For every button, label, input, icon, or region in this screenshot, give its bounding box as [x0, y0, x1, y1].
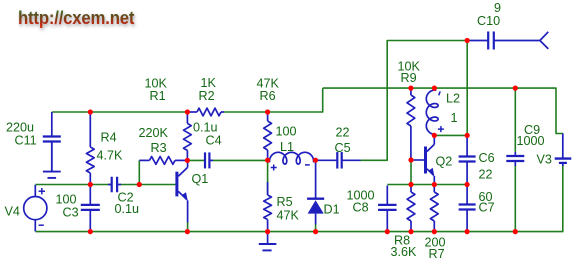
label C9 — [524, 123, 540, 137]
label L1 value — [276, 125, 297, 139]
svg-text:220K: 220K — [139, 126, 169, 140]
wire — [514, 166, 516, 232]
node junction 2 — [185, 109, 190, 114]
node junction 5 — [137, 182, 142, 187]
label L2 value — [451, 111, 458, 125]
label R1 — [150, 89, 166, 103]
L1 plus mark — [271, 165, 277, 171]
capacitor C2 — [108, 177, 121, 193]
node junction 24 — [408, 229, 413, 234]
label V4 — [5, 205, 20, 219]
ground — [43, 142, 61, 178]
label L1 — [280, 140, 294, 154]
L2 plus mark — [438, 126, 444, 132]
ground — [259, 232, 277, 250]
node junction 17 — [432, 182, 437, 187]
svg-text:0.1u: 0.1u — [193, 121, 218, 135]
svg-text:R9: R9 — [401, 71, 417, 85]
node junction 15 — [465, 133, 470, 138]
svg-text:22: 22 — [479, 168, 493, 182]
svg-text:V4: V4 — [5, 205, 20, 219]
label V3 — [537, 153, 552, 167]
svg-text:R4: R4 — [101, 131, 117, 145]
capacitor C9 — [506, 152, 524, 166]
capacitor C6 — [459, 137, 476, 183]
label C3 value — [56, 193, 77, 207]
label R3 — [151, 141, 167, 155]
svg-text:1000: 1000 — [517, 134, 545, 148]
label R6 — [260, 89, 276, 103]
wire — [387, 184, 467, 186]
capacitor C4 — [205, 152, 213, 168]
wire — [514, 88, 516, 152]
transistor Q2 — [426, 136, 435, 185]
node junction 12 — [465, 38, 470, 43]
svg-text:R5: R5 — [277, 195, 293, 209]
resistor R6 — [264, 113, 272, 160]
label C7 value — [479, 190, 493, 204]
svg-text:C5: C5 — [335, 141, 351, 155]
inductor L1 — [268, 152, 316, 164]
resistor R3 — [139, 157, 187, 165]
node junction 27 — [513, 229, 518, 234]
node junction 25 — [432, 229, 437, 234]
label C11 value — [6, 121, 34, 135]
label C4 — [206, 134, 222, 148]
node junction 20 — [185, 229, 190, 234]
capacitor C8 — [378, 186, 397, 231]
node junction 18 — [465, 182, 470, 187]
label R8 value — [391, 245, 418, 259]
svg-text:C10: C10 — [477, 14, 500, 28]
source V4 — [24, 185, 47, 232]
label C4 value — [193, 121, 218, 135]
wire — [35, 165, 563, 232]
node junction 26 — [465, 229, 470, 234]
wire — [119, 184, 176, 186]
node junction 21 — [265, 229, 270, 234]
logo http://cxem.net — [18, 8, 134, 29]
svg-text:1: 1 — [451, 111, 458, 125]
svg-text:R7: R7 — [429, 247, 445, 261]
label R8 — [394, 234, 410, 248]
label R9 — [401, 71, 417, 85]
label C10 value — [494, 1, 501, 15]
resistor R9 — [407, 89, 415, 160]
svg-text:R1: R1 — [150, 89, 166, 103]
svg-text:0.1u: 0.1u — [115, 202, 140, 216]
wire — [224, 88, 323, 112]
svg-text:C4: C4 — [206, 134, 222, 148]
capacitor C11 — [43, 112, 61, 171]
label R9 value — [398, 60, 421, 74]
svg-text:C7: C7 — [479, 201, 495, 215]
svg-text:9: 9 — [494, 1, 501, 15]
wire — [52, 111, 188, 113]
node junction 19 — [88, 229, 93, 234]
battery V3 — [555, 134, 572, 167]
resistor R8 — [407, 185, 415, 231]
svg-text:C8: C8 — [353, 201, 369, 215]
node junction 6 — [185, 158, 190, 163]
svg-text:1K: 1K — [201, 76, 217, 90]
capacitor C5 — [316, 152, 361, 169]
wire — [323, 88, 564, 133]
label C6 — [479, 151, 495, 165]
resistor R2 — [187, 108, 224, 116]
resistor R4 — [86, 113, 94, 185]
svg-text:Q1: Q1 — [192, 172, 209, 186]
label C6 value — [479, 168, 493, 182]
svg-text:C3: C3 — [63, 206, 79, 220]
node junction 14 — [432, 133, 437, 138]
label C7 — [479, 201, 495, 215]
L2 tick mark — [439, 91, 441, 95]
label C5 value — [336, 126, 350, 140]
label Q1 — [192, 172, 209, 186]
label Q2 — [436, 155, 453, 169]
label R7 — [429, 247, 445, 261]
label C2 — [118, 191, 134, 205]
label C9 value — [517, 134, 545, 148]
label C11 — [15, 134, 37, 148]
node junction 1 — [88, 109, 93, 114]
antenna — [510, 32, 548, 49]
node junction 11 — [513, 86, 518, 91]
wire — [434, 134, 467, 136]
svg-text:C6: C6 — [479, 151, 495, 165]
node junction 4 — [88, 182, 93, 187]
resistor R7 — [430, 185, 438, 231]
label R2 value — [201, 76, 217, 90]
capacitor C10 — [467, 32, 510, 50]
node junction 23 — [385, 229, 390, 234]
label R4 — [101, 131, 117, 145]
label R7 value — [425, 236, 446, 250]
svg-text:R2: R2 — [199, 89, 215, 103]
label C8 value — [347, 189, 375, 203]
node junction 13 — [408, 157, 413, 162]
node junction 8 — [313, 158, 318, 163]
label C3 — [63, 206, 79, 220]
label C10 — [477, 14, 500, 28]
wire — [267, 160, 269, 195]
L1 minus mark — [305, 164, 310, 166]
svg-text:C11: C11 — [15, 134, 37, 148]
svg-text:V3: V3 — [537, 153, 552, 167]
wire — [315, 159, 317, 162]
label R6 value — [257, 77, 280, 91]
resistor R5 — [264, 182, 272, 231]
wire — [212, 159, 267, 161]
svg-text:L2: L2 — [446, 92, 460, 106]
svg-text:100: 100 — [56, 193, 77, 207]
label R3 value — [139, 126, 169, 140]
transistor Q1 — [177, 161, 188, 231]
node junction 7 — [265, 158, 270, 163]
wire — [138, 160, 140, 184]
wire — [360, 41, 467, 161]
label R5 value — [277, 209, 300, 223]
capacitor C3 — [81, 186, 100, 231]
wire — [187, 159, 205, 161]
wire — [411, 159, 426, 161]
svg-text:47K: 47K — [277, 209, 300, 223]
svg-text:R3: R3 — [151, 141, 167, 155]
svg-text:220u: 220u — [6, 121, 34, 135]
label L2 — [446, 92, 460, 106]
svg-text:R6: R6 — [260, 89, 276, 103]
inductor L2 — [426, 88, 438, 136]
node junction 22 — [313, 229, 318, 234]
label R4 value — [97, 149, 124, 163]
capacitor C7 — [459, 186, 476, 231]
resistor R1 — [184, 113, 192, 160]
svg-text:Q2: Q2 — [436, 155, 453, 169]
label R2 — [199, 89, 215, 103]
label D1 — [324, 203, 340, 217]
node junction 16 — [408, 182, 413, 187]
label R1 value — [145, 77, 168, 91]
label C2 value — [115, 202, 140, 216]
svg-text:22: 22 — [336, 126, 350, 140]
wire — [35, 184, 112, 186]
svg-text:3.6K: 3.6K — [391, 245, 418, 259]
node junction 9 — [408, 86, 413, 91]
svg-text:100: 100 — [276, 125, 297, 139]
svg-text:D1: D1 — [324, 203, 340, 217]
node junction 10 — [432, 86, 437, 91]
svg-text:4.7K: 4.7K — [97, 149, 124, 163]
diode D1 — [307, 161, 324, 231]
wire — [410, 160, 412, 185]
label R5 — [277, 195, 293, 209]
svg-text:L1: L1 — [280, 140, 294, 154]
node junction 3 — [265, 109, 270, 114]
label C5 — [335, 141, 351, 155]
label C8 — [353, 201, 369, 215]
